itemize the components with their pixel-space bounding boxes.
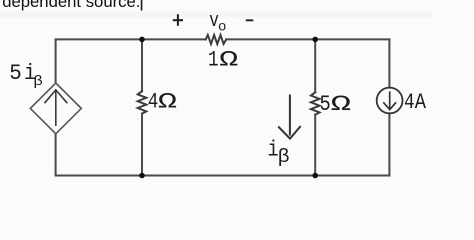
- resistor 1-ohm zigzag: [206, 35, 227, 44]
- svg-text:β: β: [278, 146, 290, 167]
- dependent current source diamond: [30, 83, 81, 134]
- label plus sign: [173, 14, 183, 26]
- wire top left segment: [56, 38, 206, 40]
- svg-text:Ω: Ω: [158, 90, 177, 115]
- dependent source arrow (up): [45, 90, 68, 126]
- svg-text:A: A: [415, 91, 427, 116]
- resistor 5-ohm zigzag: [311, 92, 320, 114]
- wire 4-ohm branch upper: [141, 39, 143, 91]
- wire 4-ohm branch lower: [141, 114, 143, 176]
- svg-text:4: 4: [404, 89, 415, 114]
- wire left branch lower: [55, 134, 57, 176]
- faint background stripe: [0, 12, 432, 18]
- 4A source arrow (down): [383, 91, 396, 109]
- independent current source circle: [377, 88, 403, 114]
- svg-text:Ω: Ω: [219, 48, 238, 73]
- svg-text:dependent source.: dependent source.: [2, 0, 140, 11]
- resistor 4-ohm zigzag: [138, 91, 147, 113]
- svg-text:Ω: Ω: [331, 92, 351, 117]
- current arrow i-beta (down): [278, 95, 301, 139]
- wire left branch upper: [55, 39, 57, 83]
- svg-text:1: 1: [208, 47, 219, 72]
- wire top right segment: [226, 38, 389, 40]
- wire 5-ohm branch upper: [314, 39, 316, 92]
- wire 5-ohm branch lower: [314, 115, 316, 176]
- svg-text:β: β: [33, 73, 43, 90]
- wire right branch upper: [388, 39, 390, 87]
- svg-text:5: 5: [9, 62, 22, 87]
- label minus sign: [246, 19, 254, 21]
- junction node bottom 4-ohm: [139, 173, 145, 179]
- junction node top 4-ohm: [139, 37, 145, 43]
- junction node bottom 5-ohm: [312, 173, 318, 179]
- wire bottom: [56, 175, 390, 177]
- svg-text:5: 5: [320, 93, 331, 118]
- text cursor: [141, 0, 143, 11]
- wire right branch lower: [388, 113, 390, 175]
- svg-text:o: o: [218, 20, 226, 36]
- svg-text:4: 4: [148, 89, 159, 114]
- junction node top 5-ohm: [312, 37, 318, 43]
